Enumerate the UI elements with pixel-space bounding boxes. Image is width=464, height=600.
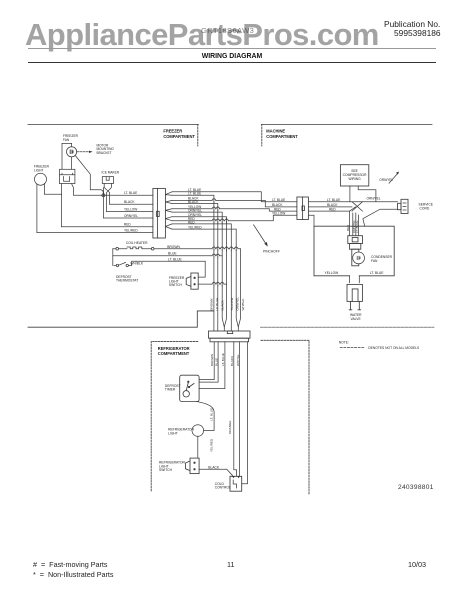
svg-text:SWITCH: SWITCH [159, 468, 173, 472]
wire LT.BLUE to service cord [308, 201, 397, 203]
part number bottom right [398, 484, 434, 491]
svg-text:CORD: CORD [420, 206, 430, 210]
svg-text:BRACKET: BRACKET [97, 151, 112, 155]
connector right fan-out splices [165, 192, 172, 229]
footer [33, 560, 108, 569]
right wire labels [188, 188, 202, 230]
bundle vertical v4 (merge) [172, 217, 227, 327]
svg-text:VALVE: VALVE [351, 317, 362, 321]
svg-text:TIMER: TIMER [165, 388, 176, 392]
freezer light [35, 173, 47, 185]
row LT.BLUE lower [136, 260, 205, 262]
wire row BLACK [110, 203, 153, 205]
svg-text:WH/BLK: WH/BLK [130, 261, 143, 265]
wire BLACK to machine compartment [172, 200, 297, 207]
svg-text:BLACK: BLACK [221, 299, 225, 310]
svg-text:LT. BLUE: LT. BLUE [124, 191, 137, 195]
freezer light switch [186, 273, 198, 289]
svg-text:YEL/RED: YEL/RED [124, 228, 138, 232]
svg-text:LT. BLUE: LT. BLUE [355, 221, 359, 233]
wire service cord lower to junction [363, 209, 398, 226]
cold control [230, 476, 242, 491]
machine compartment corner dash [261, 125, 263, 147]
wires compressor box down [350, 186, 376, 202]
wire fan top to switch [62, 143, 72, 169]
wire YELLOW down to condenser box [308, 215, 314, 226]
freezer fan motor [67, 147, 77, 157]
svg-text:BLUE: BLUE [214, 358, 218, 366]
bundle vertical v5 [172, 224, 231, 331]
bundle vertical v6 (merge) [172, 229, 238, 331]
refrigerator compartment dashed box [151, 340, 309, 495]
svg-text:RED: RED [329, 207, 336, 211]
svg-text:BROWN: BROWN [210, 299, 214, 311]
svg-text:BLACK: BLACK [230, 355, 234, 366]
svg-text:BLUE: BLUE [168, 252, 177, 256]
svg-text:WH/BLK: WH/BLK [241, 298, 245, 311]
note legend [339, 340, 420, 350]
svg-text:YELLOW: YELLOW [230, 298, 234, 311]
wire door switch junction down to red row [61, 194, 63, 227]
wire switch bottom to bundle [198, 283, 226, 285]
svg-text:YELLOW: YELLOW [272, 212, 285, 216]
svg-text:LT. BLUE: LT. BLUE [215, 298, 219, 311]
publication number [384, 20, 441, 39]
pinchoff arrow [254, 225, 267, 244]
svg-text:MACHINE: MACHINE [266, 129, 285, 134]
wire row LT.BLUE [74, 194, 153, 196]
left rail [112, 249, 114, 266]
svg-text:LIGHT: LIGHT [168, 432, 178, 436]
coil heater (defrost heater) [113, 247, 241, 249]
condenser fan enclosure box [314, 226, 394, 276]
svg-text:LIGHT: LIGHT [34, 169, 43, 173]
wire switch top to LT.BLUE row [198, 261, 205, 277]
freezer harness connector [153, 188, 166, 238]
wire freezer light to door switch [44, 184, 61, 195]
wire freezer light neutral down [36, 184, 38, 233]
freezer compartment label [158, 129, 298, 357]
svg-text:ORN/YEL: ORN/YEL [367, 197, 381, 201]
ice maker junction node [102, 194, 105, 197]
door switch pins [62, 184, 74, 196]
freezer compartment bottom border [28, 311, 214, 327]
wire fan diagonal to ice maker junction [75, 155, 103, 195]
bundle vertical v3 (merge) [172, 212, 224, 331]
svg-text:WIRING: WIRING [348, 177, 361, 181]
water valve neck [350, 276, 360, 283]
wire crossover hops [212, 198, 238, 286]
svg-text:COMPARTMENT: COMPARTMENT [266, 134, 298, 139]
condenser plug [348, 236, 363, 250]
bundle vertical v7 (merge) [238, 249, 240, 327]
refrigerator bulkhead connector [209, 331, 251, 342]
freezer compartment top border [28, 124, 198, 126]
condenser fan motor [352, 249, 359, 266]
wire RED to machine compartment [172, 215, 297, 220]
svg-text:FREEZER: FREEZER [163, 129, 182, 134]
wire RED to compressor verticals [308, 210, 349, 212]
svg-text:LT. BLUE: LT. BLUE [370, 271, 384, 275]
header rule lower [28, 62, 436, 63]
water valve [347, 284, 362, 309]
svg-text:YELLOW: YELLOW [124, 207, 137, 211]
svg-text:ORN/YEL: ORN/YEL [235, 297, 239, 311]
condenser fan label [325, 255, 393, 275]
svg-text:BROWN: BROWN [210, 354, 214, 366]
wire switch to cold control [199, 469, 233, 476]
wire YELLOW to machine compartment [172, 209, 297, 211]
freezer fan label [34, 134, 120, 174]
bracket callout arrow [77, 151, 89, 153]
svg-text:FAN: FAN [371, 259, 378, 263]
service cord [398, 199, 409, 213]
svg-text:SWITCH: SWITCH [169, 283, 183, 287]
wire row YEL/RED [37, 232, 153, 234]
wire BLACK to compressor junction [308, 206, 352, 208]
SVG-DIAGRAM [28, 125, 434, 496]
svg-text:FAN: FAN [63, 138, 70, 142]
svg-text:THERMOSTAT: THERMOSTAT [116, 279, 138, 283]
machine compartment bottom border [261, 326, 435, 328]
svg-text:ORANGE: ORANGE [228, 421, 232, 434]
svg-text:LT. BLUE: LT. BLUE [168, 257, 182, 261]
wire light to switch [197, 436, 199, 458]
defrost timer [180, 375, 199, 401]
wire row YELLOW [107, 211, 153, 213]
wire LT.BLUE to machine compartment [172, 192, 297, 202]
freezer fan/light door switch [60, 169, 75, 183]
wire row ORN/YEL [104, 217, 153, 219]
svg-text:REFRIGERATOR: REFRIGERATOR [158, 346, 190, 351]
wire fan bottom to switch [71, 157, 73, 169]
machine harness connector [297, 197, 309, 220]
svg-text:YELLOW: YELLOW [325, 271, 340, 275]
wire row RED [62, 226, 153, 228]
header rule upper [28, 48, 436, 49]
coil heater label [116, 241, 185, 287]
watermark [25, 17, 379, 53]
refrigerator light switch [186, 458, 200, 474]
svg-text:COIL HEATER: COIL HEATER [126, 241, 148, 245]
refrigerator vertical labels [209, 353, 240, 452]
svg-text:WH/YEL: WH/YEL [236, 354, 240, 366]
svg-text:COMPARTMENT: COMPARTMENT [163, 134, 195, 139]
svg-text:BLACK: BLACK [124, 200, 135, 204]
bundle vertical v2 [172, 204, 218, 332]
compressor plug verticals [350, 211, 359, 236]
refrigerator feed verticals [199, 342, 214, 380]
defrost thermostat [116, 264, 118, 266]
machine compartment top border [261, 124, 432, 126]
svg-text:ICE MAKER: ICE MAKER [102, 170, 120, 174]
refrigerator light [192, 425, 204, 437]
water valve label [350, 313, 362, 321]
svg-text:DENOTES NOT ON ALL MODELS: DENOTES NOT ON ALL MODELS [368, 346, 420, 350]
svg-text:COMPARTMENT: COMPARTMENT [158, 351, 190, 356]
machine connector labels left [272, 198, 340, 216]
svg-text:YEL/RED: YEL/RED [210, 438, 214, 452]
svg-text:RED: RED [124, 223, 131, 227]
svg-text:BROWN: BROWN [167, 245, 180, 249]
defrost timer label [159, 384, 231, 490]
svg-text:LT. BLUE: LT. BLUE [272, 198, 285, 202]
model number (over watermark) [201, 26, 254, 35]
bundle vertical v1 [172, 195, 214, 331]
svg-text:ORN/YEL: ORN/YEL [124, 214, 138, 218]
wire timer to refrigerator light [197, 402, 215, 431]
freezer compartment corner dash [197, 125, 199, 147]
svg-text:LT. BLUE: LT. BLUE [209, 408, 213, 421]
ice maker pins and crossover [104, 184, 112, 219]
svg-text:CONTROL: CONTROL [215, 486, 231, 490]
service cord label [419, 202, 434, 210]
row BLUE [113, 255, 222, 257]
svg-text:LT. BLUE: LT. BLUE [327, 198, 340, 202]
svg-text:RED: RED [346, 224, 350, 231]
title [0, 53, 464, 60]
svg-text:PINCHOFF: PINCHOFF [263, 250, 280, 254]
left wire row labels [124, 191, 138, 232]
svg-text:LT. BLUE: LT. BLUE [221, 353, 225, 366]
svg-text:NOTE:: NOTE: [339, 340, 349, 344]
bundle vertical labels [210, 297, 245, 311]
compressor vertical labels [346, 219, 359, 233]
svg-text:BLACK: BLACK [208, 465, 220, 469]
see compressor wiring box [340, 165, 368, 186]
ice maker plug [102, 177, 113, 184]
